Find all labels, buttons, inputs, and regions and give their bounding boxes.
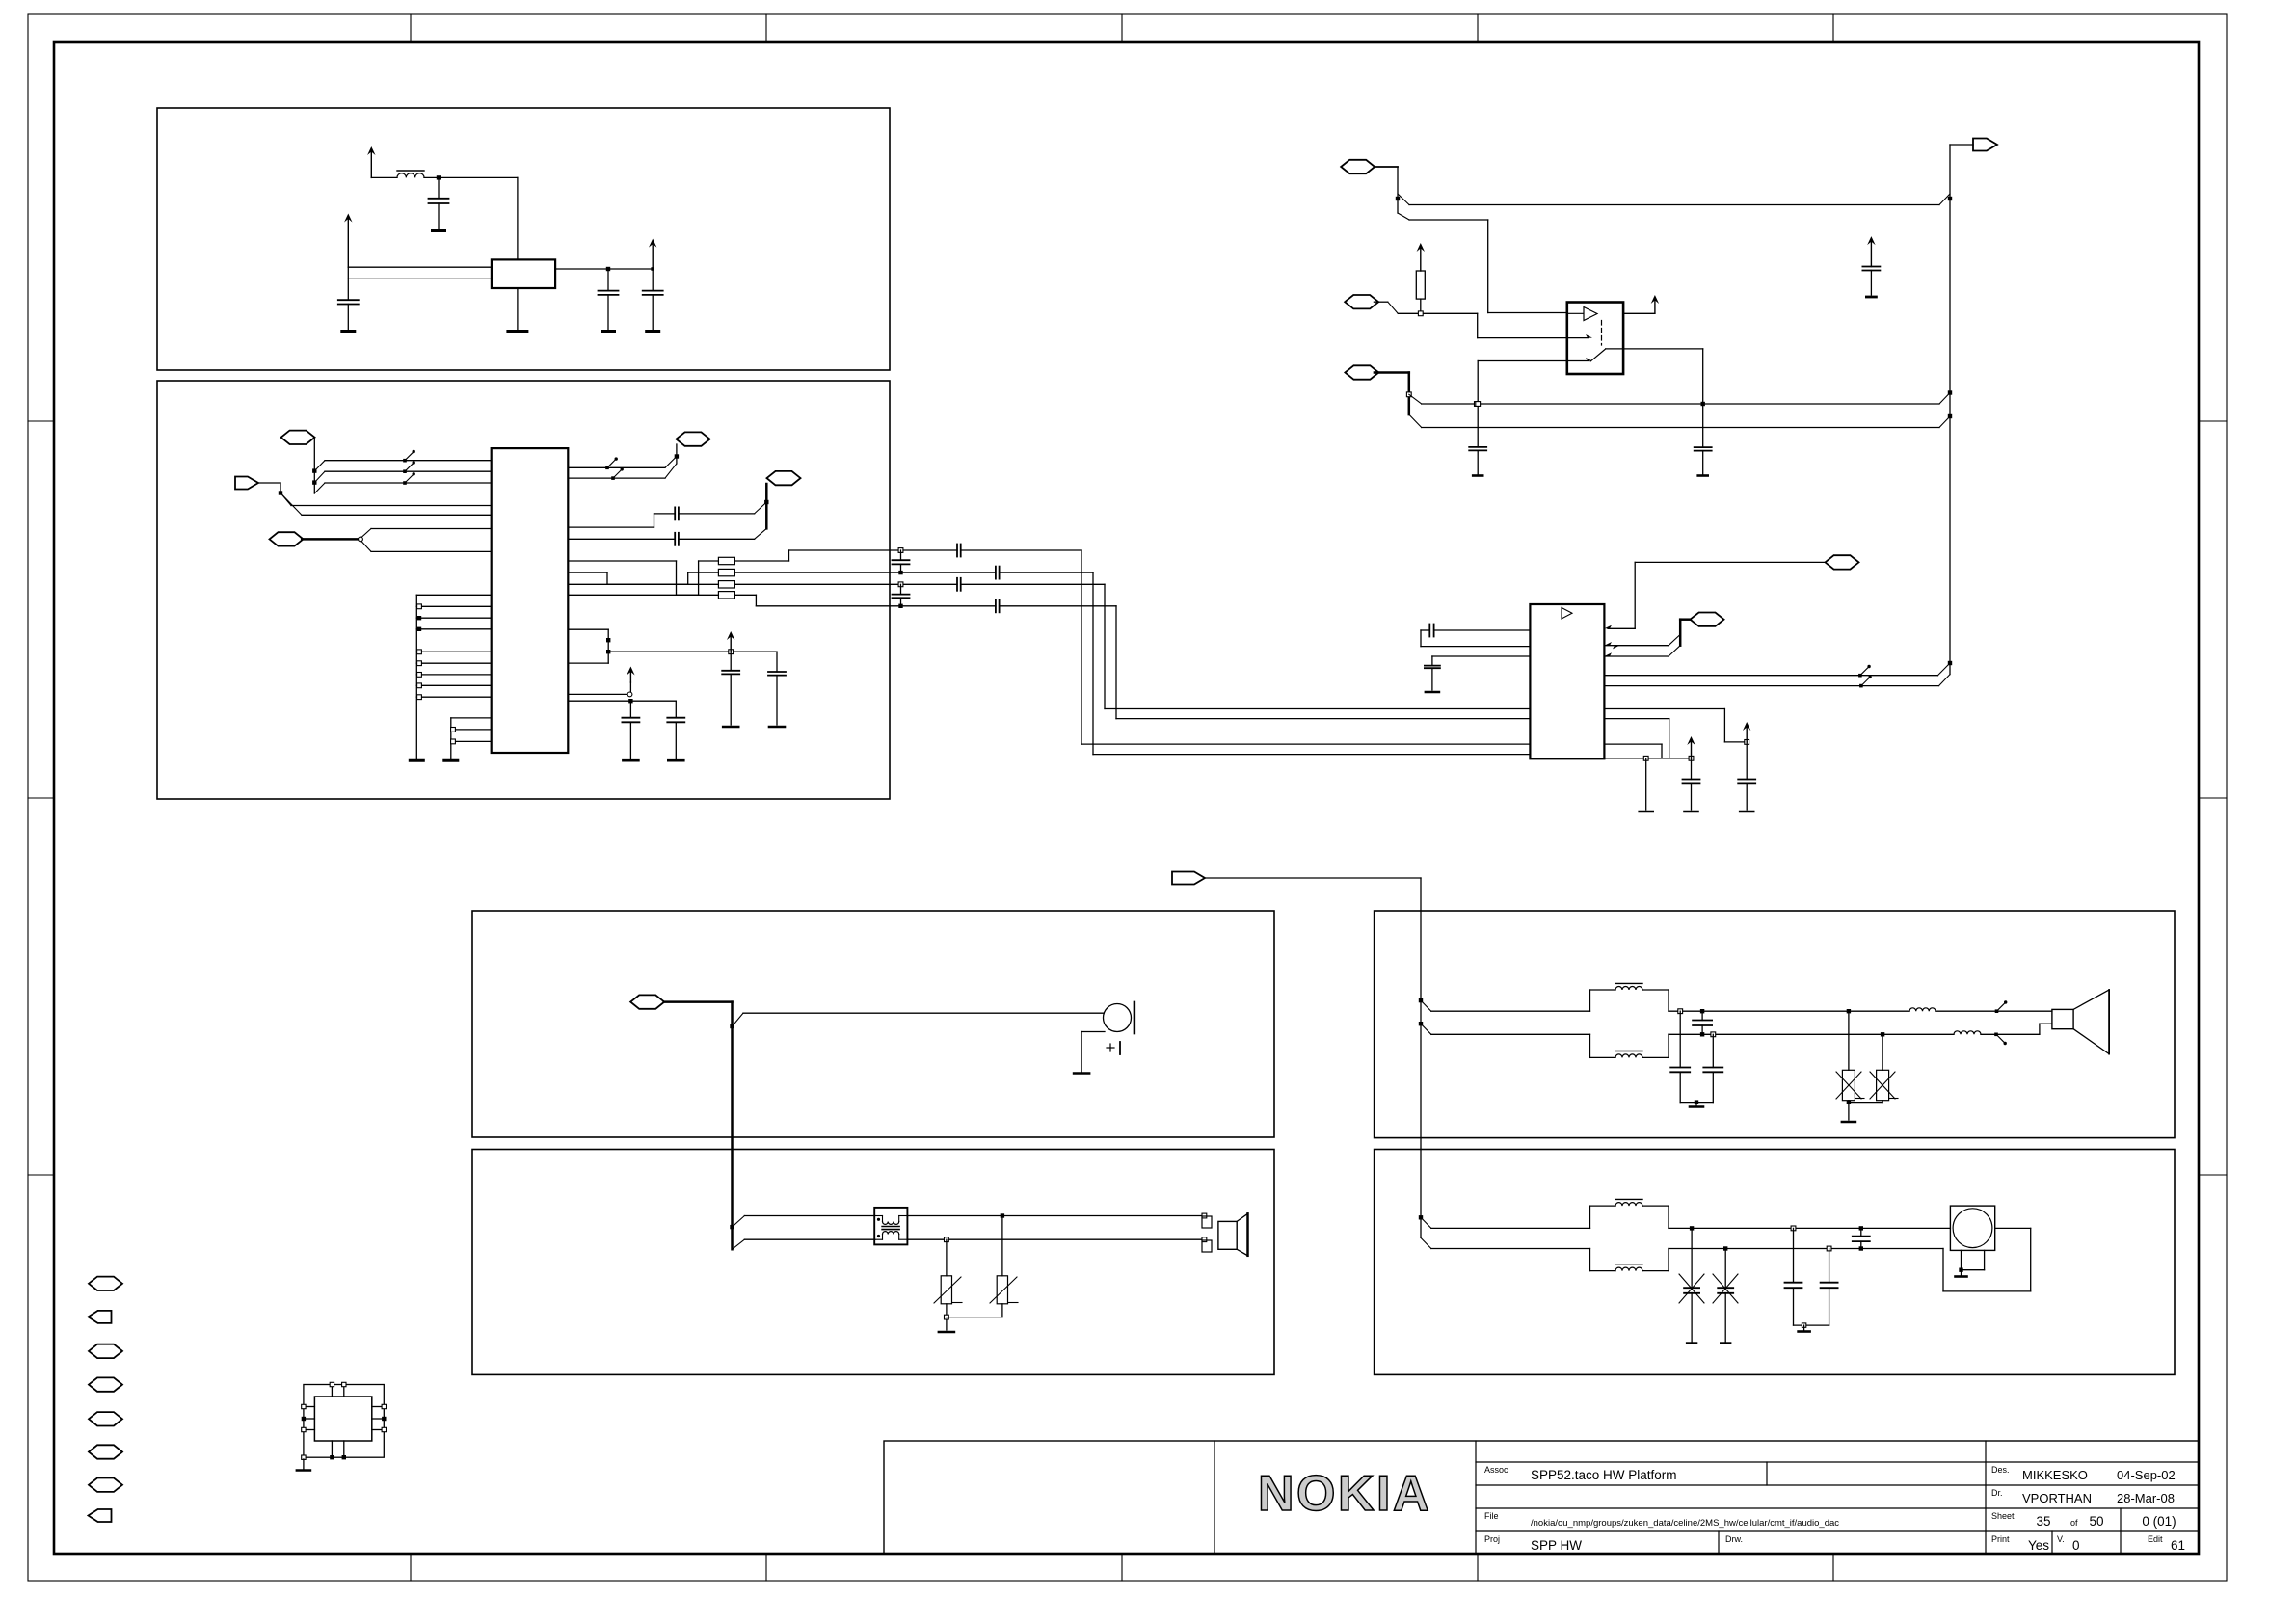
capacitor C12 series <box>956 545 958 557</box>
wire net3 to amp <box>1105 708 1530 710</box>
wire T1 outA <box>908 1215 1205 1217</box>
varistor V1 <box>946 1239 948 1276</box>
wire portD stub <box>765 484 768 528</box>
box outline: ext earpiece section <box>472 1150 1274 1375</box>
U3 pin3 stub <box>1567 360 1589 362</box>
power arrow VDD <box>629 682 631 692</box>
tap spkB <box>1994 1033 1998 1037</box>
capacitor C20 <box>629 701 631 718</box>
wire V2 bottom <box>1001 1304 1003 1317</box>
ground U4 <box>303 1459 305 1469</box>
svg-text:/nokia/ou_nmp/groups/zuken_dat: /nokia/ou_nmp/groups/zuken_data/celine/2… <box>1531 1518 1839 1529</box>
svg-text:of: of <box>2070 1518 2078 1528</box>
terminator VC2 <box>1721 1342 1730 1344</box>
wire T1 feedA <box>733 1216 745 1228</box>
ground V1 <box>939 1331 954 1334</box>
box outline: earpiece section <box>472 911 1274 1137</box>
wire branch1 slant to bus <box>1939 194 1950 205</box>
svg-text:04-Sep-02: 04-Sep-02 <box>2117 1468 2176 1482</box>
wire EARDATA slant1 <box>1669 634 1680 645</box>
varistor V3 <box>1848 1011 1850 1070</box>
node L1/C1 junction <box>437 175 441 179</box>
capacitor C25 series <box>1428 625 1430 637</box>
IC U4 <box>314 1397 371 1441</box>
wire U2 aux2 <box>1604 743 1662 745</box>
audio amp U2 <box>1530 604 1604 758</box>
wire U1 in B <box>348 278 492 279</box>
power arrow VBAT <box>370 149 372 177</box>
U3 switch arm <box>1590 349 1606 361</box>
audio DAC IC U5 <box>492 448 569 753</box>
wire bus3 <box>325 482 492 484</box>
U4 pins <box>304 1406 315 1408</box>
wire R2 right <box>734 572 996 573</box>
wire micF rail <box>1669 1248 1943 1250</box>
svg-text:0: 0 <box>2072 1538 2080 1553</box>
terminator C22 <box>1473 474 1482 477</box>
ground C32C33 <box>1803 1325 1805 1330</box>
wire net1 down <box>1081 550 1082 744</box>
guard ring U4 <box>304 1385 384 1458</box>
port XEARDATA <box>1826 555 1859 569</box>
ground under C24 <box>1866 296 1876 299</box>
wire earpiece return <box>1081 1031 1105 1033</box>
node port C stub <box>676 444 678 464</box>
capacitor C19 <box>776 652 778 672</box>
node spk feedA <box>1419 998 1423 1002</box>
resistor R3 <box>718 581 734 588</box>
capacitor C18 <box>730 652 732 671</box>
wire U2 in3 <box>1432 655 1531 657</box>
wire branchR slant <box>1939 416 1950 428</box>
node VDD circle <box>627 692 632 697</box>
capacitor C27 <box>1746 742 1748 780</box>
regulator U1 <box>492 259 555 288</box>
wire P2b <box>302 514 492 516</box>
wire T1 outB <box>908 1238 1205 1240</box>
spare port 7 <box>89 1478 122 1492</box>
ground mic <box>1961 1270 1962 1275</box>
earpiece B1 <box>1104 1004 1132 1032</box>
op-amp U3 <box>1567 303 1623 375</box>
tap on bus1 <box>403 459 407 463</box>
U1 ground pin <box>517 288 519 330</box>
ground under C18 <box>723 726 738 729</box>
wire U2 in2 <box>1421 646 1530 648</box>
power arrow U3 <box>1654 298 1656 313</box>
ground C30C31 <box>1695 1103 1697 1105</box>
wire R1 jog up <box>734 560 788 562</box>
EMI filter Z1 top <box>1589 990 1591 1011</box>
wire bus fanout slants <box>314 461 325 471</box>
wire V1 bottom <box>946 1304 948 1330</box>
capacitor C17 coupling <box>900 584 902 594</box>
box outline: microphone section <box>1375 1150 2175 1375</box>
ground under C26 <box>1426 691 1439 694</box>
capacitor C23 <box>1695 446 1712 448</box>
svg-text:NOKIA: NOKIA <box>1258 1466 1431 1522</box>
wire P3b <box>371 550 492 552</box>
wire net1 to cap <box>789 549 958 551</box>
wire DAC outA <box>568 526 654 528</box>
wire micE rail <box>1669 1227 1950 1229</box>
left aux wires <box>450 718 452 759</box>
wire C30-C31 join <box>1680 1102 1713 1104</box>
wire spkA rail <box>1669 1010 1909 1012</box>
wire net2 down <box>1092 572 1094 755</box>
svg-text:SPP52.taco HW Platform: SPP52.taco HW Platform <box>1531 1468 1677 1482</box>
box outline: audio DAC section <box>157 381 890 799</box>
wire XSPKR <box>1205 877 1421 879</box>
wire U3 power <box>1623 312 1655 314</box>
wire C25 stub <box>1421 629 1429 631</box>
wire from XMICP <box>1374 166 1398 168</box>
wire net1 to amp <box>1081 743 1530 745</box>
spare port 8 (arrow) <box>89 1509 112 1522</box>
wire to R4 <box>568 594 698 596</box>
wire DAC out1 <box>568 466 665 468</box>
wire T1 feedB <box>733 1239 745 1249</box>
wire to R1 <box>568 560 676 562</box>
capacitor C3 <box>607 269 609 291</box>
wire mic slantF <box>1420 1217 1422 1237</box>
wire spk slantA <box>1421 1000 1431 1011</box>
capacitor C4 <box>652 269 654 291</box>
power arrow decouple <box>1870 239 1872 266</box>
port MICB <box>1345 365 1378 379</box>
wire U2 aux1 <box>1604 718 1669 720</box>
port XSPKR <box>1172 872 1205 885</box>
wire net2 cont <box>1000 572 1093 573</box>
spare port 2 (arrow) <box>89 1311 112 1323</box>
wire XMICP branch1 <box>1398 194 1409 205</box>
wire from XMICN <box>1374 301 1387 303</box>
ground under C3 <box>602 330 615 333</box>
port EARP hexagon <box>767 471 801 485</box>
U3 pin2 stub <box>1567 337 1589 339</box>
wire spkB jog <box>2039 1024 2041 1034</box>
svg-text:Sheet: Sheet <box>1991 1511 2015 1521</box>
wire U2 out2 <box>1604 685 1938 687</box>
port HPR <box>630 995 664 1008</box>
capacitor C30 <box>1679 1011 1681 1067</box>
resistor R4 <box>718 592 734 599</box>
mic terminals <box>1961 1250 1962 1269</box>
terminator VC1 <box>1687 1342 1696 1344</box>
svg-text:File: File <box>1484 1511 1499 1521</box>
ground under C1 <box>433 229 445 232</box>
box outline: speaker section <box>1375 911 2175 1138</box>
svg-text:61: 61 <box>2171 1538 2185 1553</box>
wire to port XEAR <box>1950 144 1973 146</box>
wire P3a <box>371 528 492 530</box>
wire U1 in A <box>348 266 492 268</box>
ground U2 rail <box>1640 811 1653 813</box>
ground under C27 <box>1740 811 1753 813</box>
power arrow VREF <box>730 634 732 652</box>
ground under aux wires <box>444 759 458 762</box>
capacitor C21 <box>675 701 677 718</box>
capacitor C16 coupling <box>900 550 902 560</box>
wire R4 jog down <box>734 594 756 596</box>
capacitor C1 <box>438 177 440 198</box>
svg-text:VPORTHAN: VPORTHAN <box>2022 1491 2092 1505</box>
svg-text:Drw.: Drw. <box>1725 1534 1743 1544</box>
capacitor C31 <box>1712 1034 1714 1067</box>
capacitor C34 coupling <box>1860 1228 1862 1236</box>
tap on bus2 <box>403 469 407 473</box>
port XEAR <box>1973 139 1997 151</box>
wire from PCMDSP <box>258 482 280 484</box>
bus vertical XEAR <box>1949 145 1951 675</box>
wire HPR <box>664 1000 733 1003</box>
wire C11 to portD <box>679 538 755 540</box>
ground under U1 <box>508 330 527 333</box>
wire DAC out2 <box>568 477 665 479</box>
wire XMICN jog <box>1477 313 1479 337</box>
svg-text:MIKKESKO: MIKKESKO <box>2022 1468 2088 1482</box>
capacitor C33 <box>1829 1249 1830 1283</box>
ground under C20 <box>623 759 638 762</box>
wire U2 out1 <box>1604 675 1937 677</box>
wire net4 right <box>756 605 996 607</box>
U3 triangle <box>1584 307 1597 321</box>
ground under C21 <box>668 759 683 762</box>
U3 internal dashed <box>1601 321 1603 346</box>
wire bus1 <box>325 460 492 462</box>
title block table <box>884 1441 2199 1554</box>
wire mic loop <box>1995 1227 2031 1229</box>
svg-text:0 (01): 0 (01) <box>2142 1514 2176 1529</box>
wire to R3 <box>568 583 687 585</box>
wire out2 slant <box>1939 675 1951 686</box>
wire VREF stub <box>568 628 608 630</box>
wire to R2 <box>568 572 607 573</box>
wire U1 output <box>555 268 653 270</box>
capacitor C26 <box>1425 665 1440 667</box>
transformer T1 <box>874 1208 907 1245</box>
svg-text:Dr.: Dr. <box>1991 1488 2003 1498</box>
ground under C19 <box>769 726 785 729</box>
svg-text:Edit: Edit <box>2148 1534 2163 1544</box>
box outline: supply filter section <box>157 108 890 370</box>
wire HPR slant <box>733 1013 744 1026</box>
wire L1 to C1 node <box>424 176 518 178</box>
varcap VC1 <box>1691 1228 1693 1288</box>
wire net4 cont <box>1000 605 1116 607</box>
ground under C2 <box>342 330 355 333</box>
wire U2 bottom rail <box>1604 758 1691 759</box>
capacitor C29 coupling <box>1701 1011 1703 1020</box>
capacitor C13 series <box>995 567 997 579</box>
wire branchP slant <box>1939 393 1950 405</box>
svg-text:V.: V. <box>2057 1534 2065 1544</box>
svg-text:SPP HW: SPP HW <box>1531 1538 1582 1553</box>
wire R5 to node <box>1420 299 1422 313</box>
terminator C23 <box>1698 474 1708 477</box>
wire out1 slant <box>1937 663 1950 676</box>
svg-text:50: 50 <box>2089 1514 2103 1529</box>
ground under config bus <box>410 759 423 762</box>
ground under C4 <box>647 330 659 333</box>
varcap VC2 <box>1724 1249 1726 1289</box>
ground earpiece <box>1074 1072 1089 1075</box>
varistor V4 <box>1882 1034 1883 1070</box>
tap on DAC out2 <box>611 476 615 480</box>
wire from PCMRX <box>302 538 359 541</box>
wire U2 in1 <box>1434 629 1531 631</box>
wire MICB branchP <box>1409 394 1422 404</box>
wire net3 cont <box>961 583 1105 585</box>
wire VDD pin <box>568 693 627 695</box>
wire EARDATA slant2 <box>1669 646 1680 656</box>
spare port 5 <box>89 1412 122 1425</box>
resistor R5 bias <box>1416 271 1425 299</box>
capacitor C2 <box>338 299 359 301</box>
wire net1 cont <box>961 549 1081 551</box>
port XMICP <box>1341 160 1375 173</box>
EMI filter Z1 bottom <box>1589 1034 1591 1057</box>
left config bus wires <box>415 595 417 759</box>
wire C32C33 join <box>1794 1324 1829 1326</box>
wire bus2 <box>325 470 492 472</box>
spare port 1 <box>89 1277 122 1290</box>
speaker SP1 terminals <box>1202 1216 1212 1228</box>
tap on DAC out1 <box>605 466 609 470</box>
wire U3 pin3 ext <box>1478 360 1567 362</box>
capacitor C24 <box>1862 266 1880 268</box>
port EARDATA diff <box>1691 613 1724 626</box>
varistor V2 <box>1001 1216 1003 1276</box>
wire net3 down <box>1104 584 1106 708</box>
wire port PCMCLK stub <box>313 438 315 493</box>
wire down to U1 <box>517 177 519 259</box>
wire net2 to amp <box>1093 754 1530 756</box>
capacitor C22 <box>1469 446 1486 448</box>
capacitor C32 <box>1793 1228 1795 1282</box>
inductor L3 <box>1954 1031 1981 1035</box>
svg-text:Print: Print <box>1991 1534 2010 1544</box>
port PCMCLK <box>281 431 315 444</box>
port IHF hexagon <box>677 432 710 445</box>
port PCMRX <box>270 532 304 545</box>
port XMICN <box>1345 295 1378 308</box>
wire U2 vref <box>1604 708 1724 710</box>
wire fan slants P2 <box>280 493 291 506</box>
capacitor C15 series <box>995 599 997 612</box>
inductor L1 <box>397 173 424 178</box>
wire spk slantB <box>1421 1024 1431 1034</box>
EMI filter Z2 top <box>1589 1206 1591 1228</box>
power arrow U2b <box>1691 739 1693 758</box>
spare port 3 <box>89 1344 122 1358</box>
wire net4 down <box>1115 606 1117 719</box>
wire net4 to amp <box>1116 718 1530 720</box>
svg-text:Assoc: Assoc <box>1484 1465 1508 1475</box>
node C4 <box>651 267 654 271</box>
microphone M1 <box>1950 1206 1994 1250</box>
wire XMICP branch2 <box>1398 213 1409 220</box>
tap out2 <box>1859 684 1863 688</box>
wire P3 slants <box>361 529 371 538</box>
speaker SP2 <box>2052 1009 2073 1028</box>
node T1 feed <box>730 1225 734 1229</box>
capacitor C14 series <box>956 578 958 591</box>
svg-text:Des.: Des. <box>1991 1465 2010 1475</box>
wire VREF rail <box>608 651 777 652</box>
ground V3V4 <box>1842 1121 1855 1124</box>
power arrow VIN <box>347 217 349 268</box>
wire V3V4 join <box>1848 1101 1850 1120</box>
capacitor C10 series <box>674 507 676 519</box>
wire EARDATA stub <box>1680 618 1691 621</box>
ground under C28 <box>1685 811 1698 813</box>
power arrow VOUT <box>652 242 654 269</box>
node C3 <box>606 267 610 271</box>
wire HPR down <box>731 1002 734 1250</box>
svg-text:28-Mar-08: 28-Mar-08 <box>2117 1491 2175 1505</box>
tap out1 <box>1858 674 1862 678</box>
svg-text:Yes: Yes <box>2028 1538 2049 1553</box>
earpiece polarity <box>1107 1047 1114 1049</box>
resistor R1 <box>718 557 734 564</box>
U2 triangle <box>1562 608 1572 620</box>
wire P2a <box>291 505 492 507</box>
speaker SP1 <box>1218 1221 1237 1249</box>
wire to earpiece <box>743 1012 1104 1014</box>
wire XEARDATA to U2 <box>1635 561 1825 563</box>
wire C10 to portD <box>679 513 755 515</box>
port PCMDSP <box>235 477 258 490</box>
wire DAC outB <box>568 538 675 540</box>
capacitor C11 series <box>674 533 676 545</box>
svg-text:35: 35 <box>2036 1514 2050 1529</box>
inductor L2 <box>1909 1008 1936 1011</box>
spare port 6 <box>89 1445 122 1458</box>
spare port 4 <box>89 1377 122 1391</box>
wire gnd stub <box>1645 758 1647 810</box>
wire spkB rail <box>1669 1033 1954 1035</box>
wire VDD2 pin <box>568 700 676 702</box>
wire from MICB <box>1375 371 1409 374</box>
node PCMRX split <box>359 537 363 542</box>
wire R3 right <box>734 583 957 585</box>
power arrow U2a <box>1746 725 1748 742</box>
tap spkA <box>1995 1009 1999 1013</box>
wire mic slantE <box>1421 1217 1431 1228</box>
EMI filter Z2 bottom <box>1589 1249 1591 1271</box>
svg-text:Proj: Proj <box>1484 1534 1500 1544</box>
node mic feed <box>1419 1215 1423 1219</box>
tap on bus3 <box>403 481 407 485</box>
resistor R2 <box>718 569 734 575</box>
frame zone ticks <box>410 14 412 42</box>
power arrow bias <box>1420 246 1422 271</box>
capacitor C28 <box>1691 758 1693 780</box>
wire U3 output <box>1623 348 1703 350</box>
wire MICB branchR <box>1409 414 1422 427</box>
